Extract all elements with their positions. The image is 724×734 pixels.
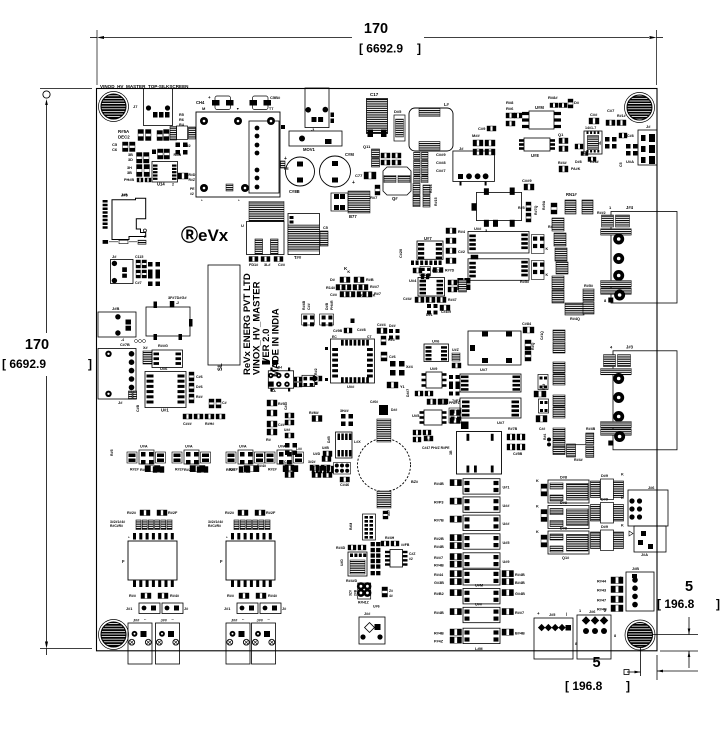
svg-text:D#: D# xyxy=(574,100,580,105)
svg-text:U#1: U#1 xyxy=(503,486,510,490)
svg-text:X#4: X#4 xyxy=(406,365,414,369)
svg-text:R#4H: R#4H xyxy=(385,536,395,540)
svg-text:R#8: R#8 xyxy=(506,100,514,105)
svg-text:J##: J## xyxy=(364,612,371,616)
svg-text:U#4: U#4 xyxy=(409,278,417,283)
svg-text:R#2F: R#2F xyxy=(168,511,178,515)
svg-text:PE: PE xyxy=(190,187,195,191)
svg-text:C77: C77 xyxy=(355,173,363,178)
svg-text:J#4: J#4 xyxy=(626,205,634,210)
resistor R#D right of U14 xyxy=(178,173,182,179)
pin row top T3 xyxy=(231,533,234,540)
svg-text:C5B#: C5B# xyxy=(270,95,281,100)
diode D5 xyxy=(394,115,405,141)
svg-text:C#4#: C#4# xyxy=(284,402,288,410)
capacitor CH4 xyxy=(215,96,231,110)
svg-text:MOV1: MOV1 xyxy=(303,147,316,152)
ic U29 xyxy=(426,372,442,388)
terminal block J35 xyxy=(534,618,573,659)
connector J6A xyxy=(98,349,136,400)
pin row bottom T3 xyxy=(231,581,234,588)
striped block at 188 xyxy=(189,127,196,139)
svg-text:5: 5 xyxy=(685,579,693,595)
svg-text:+: + xyxy=(537,611,540,616)
ic U16 xyxy=(152,350,183,368)
svg-text:K: K xyxy=(360,294,363,298)
svg-text:U#7: U#7 xyxy=(497,420,505,425)
pads cluster 7HF1 xyxy=(439,399,442,404)
svg-text:R#4B: R#4B xyxy=(434,545,444,549)
capacitor C88 xyxy=(589,118,593,124)
svg-text:R#M#: R#M# xyxy=(309,411,319,415)
svg-text:U#7: U#7 xyxy=(480,367,488,372)
svg-text:--: -- xyxy=(268,618,270,622)
svg-text:ⓇeVx: ⓇeVx xyxy=(181,225,229,245)
parts PA2K xyxy=(559,166,562,172)
terminal block J36 xyxy=(577,615,611,659)
svg-text:K: K xyxy=(347,270,350,274)
capacitor C9b xyxy=(487,126,490,131)
svg-text:14#1-7: 14#1-7 xyxy=(585,126,596,130)
parts X7R xyxy=(383,511,388,514)
svg-text:]: ] xyxy=(626,679,630,693)
svg-text:R#4B: R#4B xyxy=(434,564,444,568)
svg-text:R#M: R#M xyxy=(349,523,353,530)
svg-text:3D: 3D xyxy=(128,158,133,162)
svg-text:+: + xyxy=(284,156,287,162)
svg-text:C#: C# xyxy=(222,401,227,405)
heatsink hatched block B77 xyxy=(348,191,370,213)
svg-text:C#M: C#M xyxy=(345,152,354,157)
svg-text:R##: R## xyxy=(129,594,137,598)
svg-text:C#8: C#8 xyxy=(627,134,634,138)
svg-text:R#6: R#6 xyxy=(506,106,514,111)
driver parts row xyxy=(381,153,384,158)
resistor R77 xyxy=(375,185,380,189)
svg-text:C#4#9: C#4#9 xyxy=(441,310,451,314)
ic column left of chain xyxy=(538,375,548,390)
svg-text:C##9: C##9 xyxy=(436,152,446,157)
svg-text:J#: J# xyxy=(118,400,123,405)
svg-text:C#47 PH#Z R#PE: C#47 PH#Z R#PE xyxy=(422,446,450,450)
transformer T2 xyxy=(128,541,177,580)
svg-text:PH#R: PH#R xyxy=(330,300,334,310)
capacitor C29 xyxy=(524,184,528,190)
output transistor pair Q4 xyxy=(601,479,614,500)
svg-text:U#9: U#9 xyxy=(430,366,438,371)
svg-text:R##: R## xyxy=(196,395,203,399)
svg-text:U#B: U#B xyxy=(322,446,329,450)
svg-text:R#C#R#: R#C#R# xyxy=(208,524,221,528)
svg-text:R#5#: R#5# xyxy=(584,284,594,288)
svg-text:R#8#: R#8# xyxy=(548,95,558,100)
pad grid under L3 xyxy=(414,152,421,159)
svg-text:|: | xyxy=(566,611,567,616)
svg-text:J#6: J#6 xyxy=(648,486,654,490)
svg-text:-4: -4 xyxy=(404,563,407,567)
pads 3H11 xyxy=(341,414,346,419)
parts right of U26 xyxy=(448,280,451,285)
parts right of mcu C34 xyxy=(377,328,381,334)
transistor Q4 xyxy=(383,167,411,195)
svg-text:U#A: U#A xyxy=(626,159,634,164)
svg-text:R#47: R#47 xyxy=(597,599,606,603)
svg-text:C#6: C#6 xyxy=(389,355,396,359)
left dimension arrows xyxy=(43,91,50,98)
svg-text:C#4#: C#4# xyxy=(403,297,412,301)
connector J3 xyxy=(453,151,495,182)
via pad xyxy=(351,319,355,324)
relay opto row 9 xyxy=(463,628,500,643)
label area rectangle xyxy=(208,265,240,365)
opto chain resistors upper xyxy=(552,276,564,289)
svg-text:[ 6692.9: [ 6692.9 xyxy=(2,357,46,371)
svg-text:R#4Q: R#4Q xyxy=(570,317,580,321)
mounting hole bottom-right xyxy=(625,620,655,650)
capacitor row under U21 xyxy=(183,414,186,419)
svg-text:Y1: Y1 xyxy=(400,385,405,389)
svg-text:C#1Q: C#1Q xyxy=(540,331,544,340)
capacitor C19B xyxy=(344,328,347,333)
svg-text:R#9A: R#9A xyxy=(542,200,546,210)
svg-text:#2: #2 xyxy=(409,557,413,561)
terminal block J31 xyxy=(156,623,180,664)
parts C7 R11 xyxy=(606,120,609,126)
svg-text:-2: -2 xyxy=(176,301,179,305)
svg-text:PH#B: PH#B xyxy=(124,178,134,182)
resistors R8Q xyxy=(525,340,531,344)
svg-text:R#44: R#44 xyxy=(434,573,444,577)
svg-text:+: + xyxy=(352,180,355,186)
ic U37 outline xyxy=(468,331,521,365)
resistors R1B column xyxy=(423,185,430,196)
svg-text:C#0#: C#0# xyxy=(370,400,378,404)
svg-text:D#8: D#8 xyxy=(575,160,582,164)
connector J1A xyxy=(634,526,666,552)
pin row top T2 xyxy=(133,533,136,540)
svg-text:J#6: J#6 xyxy=(589,610,595,614)
svg-text:R#2#: R#2# xyxy=(175,468,184,472)
svg-text:J##: J## xyxy=(133,619,140,623)
svg-text:D#B: D#B xyxy=(327,436,331,443)
svg-text:J#1: J#1 xyxy=(126,607,132,611)
svg-text:FD1#: FD1# xyxy=(249,263,259,267)
svg-text:U#A: U#A xyxy=(239,445,247,449)
small parts row FD xyxy=(249,257,252,262)
chain right resistors xyxy=(583,289,594,301)
jumper rows top xyxy=(340,277,344,283)
relay output group D2 xyxy=(548,506,589,529)
svg-text:3B: 3B xyxy=(449,450,453,455)
svg-text:Q1: Q1 xyxy=(558,132,564,137)
ic U26 xyxy=(418,278,445,297)
ic X5 QFN xyxy=(584,131,602,154)
bottom parts row tile21 xyxy=(413,268,416,273)
circle pads cluster below L3X xyxy=(334,463,351,475)
svg-text:U#1: U#1 xyxy=(161,408,169,413)
svg-text:X#7: X#7 xyxy=(387,510,391,516)
svg-text:R#D: R#D xyxy=(189,173,196,177)
resistor column right of U21 xyxy=(189,372,194,375)
relay output group D1 xyxy=(548,480,589,503)
wide ic U18 xyxy=(460,398,521,418)
dark labels left of J4H xyxy=(262,361,270,365)
svg-text:R##7: R##7 xyxy=(370,285,379,289)
svg-text:R#4#: R#4# xyxy=(558,161,567,165)
svg-text:2#B: 2#B xyxy=(354,589,358,596)
svg-text:+: + xyxy=(620,606,623,611)
svg-text:3H##: 3H## xyxy=(340,409,349,413)
svg-text:R#C#R#: R#C#R# xyxy=(110,524,123,528)
film capacitor C17 xyxy=(367,99,388,134)
diode D31 xyxy=(427,304,431,308)
resistors R5Q xyxy=(526,202,531,205)
svg-text:C##4: C##4 xyxy=(377,323,386,327)
svg-text:C#: C# xyxy=(284,460,288,464)
top dimension extension line left xyxy=(96,30,98,85)
svg-text:R#B: R#B xyxy=(366,278,374,282)
svg-text:170: 170 xyxy=(364,21,388,37)
svg-text:#2: #2 xyxy=(190,192,194,196)
svg-text:U##: U## xyxy=(284,428,290,432)
ic L3X xyxy=(336,432,353,458)
svg-text:D#8: D#8 xyxy=(560,476,567,480)
mounting hole top-left xyxy=(99,92,129,122)
pad row under U27 xyxy=(411,261,414,266)
svg-text:C#Z: C#Z xyxy=(409,552,415,556)
mounting hole top-right xyxy=(625,93,655,123)
connector M cluster left xyxy=(473,140,477,146)
resistor R7D under U27 xyxy=(433,268,437,273)
capacitor row C115 xyxy=(136,260,141,263)
connector outline right of U13 xyxy=(177,126,188,140)
svg-text:R#4#: R#4# xyxy=(574,458,583,462)
svg-text:R#2#: R#2# xyxy=(127,511,137,515)
svg-text:8: 8 xyxy=(614,634,616,638)
svg-text:R#44: R#44 xyxy=(597,580,607,584)
ic U4A xyxy=(626,144,631,149)
svg-text:--: -- xyxy=(242,618,244,622)
row under U25 xyxy=(413,430,416,435)
top dimension extension line right xyxy=(656,30,658,85)
svg-text:4H: 4H xyxy=(277,366,282,370)
svg-text:U14: U14 xyxy=(157,182,165,187)
svg-text:C###: C### xyxy=(183,422,192,426)
relay opto row 2 xyxy=(463,497,500,512)
svg-text:[ 6692.9: [ 6692.9 xyxy=(359,42,403,56)
crystal Y1 xyxy=(387,382,391,388)
terminal block J33 xyxy=(252,623,276,664)
header J10 xyxy=(363,514,376,540)
svg-text:5: 5 xyxy=(592,655,600,671)
svg-text:R#2#: R#2# xyxy=(140,468,150,472)
opto resistor chain upper xyxy=(552,218,564,231)
inductor L1 hatched xyxy=(249,202,284,222)
svg-text:D#B: D#B xyxy=(325,302,329,310)
svg-text:R#16: R#16 xyxy=(429,184,433,193)
pad near module xyxy=(461,422,469,430)
svg-text:U#8: U#8 xyxy=(531,153,539,158)
svg-text:C#5B: C#5B xyxy=(513,452,523,456)
wide ic LU1 xyxy=(468,232,529,254)
svg-text:C115: C115 xyxy=(135,255,143,259)
diode D13 xyxy=(389,329,393,333)
svg-text:C##: C## xyxy=(307,303,311,310)
svg-text:R#4B: R#4B xyxy=(434,611,444,615)
svg-text:Q1#: Q1# xyxy=(562,556,570,560)
svg-text:U#A: U#A xyxy=(185,445,193,449)
svg-text:R##7: R##7 xyxy=(434,556,443,560)
svg-text:B#4B: B#4B xyxy=(515,632,525,636)
svg-text:J#B: J#B xyxy=(632,567,639,571)
svg-text:U#7: U#7 xyxy=(424,236,432,241)
bottom dimension arrows xyxy=(627,671,641,673)
hatched block X7 xyxy=(377,491,391,508)
svg-text:U: U xyxy=(241,223,244,228)
svg-text:R#: R# xyxy=(548,225,553,229)
connector J5 right edge xyxy=(638,130,657,165)
output transistor pair Q5 xyxy=(601,503,614,524)
pin row bottom T2 xyxy=(133,581,136,588)
svg-text:[ 196.8: [ 196.8 xyxy=(565,679,603,693)
transformer T3 xyxy=(226,541,275,580)
svg-text:R#2#: R#2# xyxy=(184,468,194,472)
svg-text:]: ] xyxy=(716,597,720,611)
svg-text:R6: R6 xyxy=(179,118,184,122)
electrolytic capacitor C2 xyxy=(320,156,351,187)
svg-text:U#5: U#5 xyxy=(503,541,510,545)
svg-text:T##: T## xyxy=(294,255,302,260)
board outline xyxy=(97,89,658,651)
svg-text:D#1: D#1 xyxy=(426,313,433,317)
svg-text:R#4B: R#4B xyxy=(515,573,525,577)
pads right of LU1 xyxy=(532,235,545,254)
svg-text:CH4: CH4 xyxy=(196,100,205,105)
svg-text:3B: 3B xyxy=(128,153,133,157)
svg-text:R##2: R##2 xyxy=(597,211,606,215)
svg-text:C##8: C##8 xyxy=(436,160,446,165)
regulator U3D striped xyxy=(348,552,367,576)
svg-text:M##: M## xyxy=(472,133,481,138)
svg-text:2: 2 xyxy=(172,183,174,187)
svg-text:R#H#: R#H# xyxy=(205,422,214,426)
svg-text:R##G: R##G xyxy=(158,344,168,348)
svg-text:R#P3: R#P3 xyxy=(434,501,444,505)
svg-text:SL: SL xyxy=(218,363,224,371)
connector J16 xyxy=(628,490,668,526)
svg-text:C#9B: C#9B xyxy=(333,329,343,333)
svg-text:R#4#D: R#4#D xyxy=(346,579,358,583)
svg-text:R#43: R#43 xyxy=(597,589,606,593)
connector J3 right outline xyxy=(613,351,677,450)
parts row under J15 xyxy=(103,240,109,244)
parts cluster mid x310 xyxy=(310,465,313,471)
svg-text:U##: U## xyxy=(503,504,511,508)
svg-text:U#6: U#6 xyxy=(160,366,168,371)
svg-text:3#2#: 3#2# xyxy=(308,460,316,464)
diode D2 xyxy=(568,99,573,102)
parts cluster left bottom xyxy=(285,465,288,471)
capacitor C77 xyxy=(364,172,369,179)
connector J2 top xyxy=(305,88,329,128)
svg-text:J#: J# xyxy=(112,254,117,259)
pad column right of U3D xyxy=(371,542,375,546)
power module U1 xyxy=(196,112,280,197)
ic U27 xyxy=(417,241,443,259)
buzzer BZ1 xyxy=(358,439,411,492)
svg-text:R##: R## xyxy=(227,594,235,598)
shield module X2 outline xyxy=(146,307,190,336)
svg-text:R#7B: R#7B xyxy=(508,427,518,431)
svg-text:C##8: C##8 xyxy=(357,328,366,332)
svg-text:U#9: U#9 xyxy=(503,560,510,564)
resistors near X5 xyxy=(575,144,578,149)
svg-text:R#7D: R#7D xyxy=(432,269,442,273)
pads right of U29 xyxy=(449,375,453,379)
svg-text:K: K xyxy=(621,473,624,477)
svg-text:G#4B: G#4B xyxy=(515,592,525,596)
svg-text:U#M: U#M xyxy=(475,584,483,588)
resistor R9A xyxy=(551,203,557,207)
wide ic U17 xyxy=(460,374,521,392)
bottom small dimension lines xyxy=(640,646,642,676)
transformer T1 xyxy=(288,214,320,255)
relay opto row 3 xyxy=(463,515,500,530)
parts R88 xyxy=(550,103,553,108)
parts R8A xyxy=(294,377,297,382)
left dimension extension line top xyxy=(40,88,92,90)
svg-text:]: ] xyxy=(88,357,92,371)
svg-text:C#8B: C#8B xyxy=(289,189,300,194)
svg-text:K: K xyxy=(536,530,539,534)
connector J4 pads xyxy=(602,215,614,227)
svg-text:K: K xyxy=(546,273,549,277)
svg-text:3L#: 3L# xyxy=(264,263,271,267)
svg-text:R#47: R#47 xyxy=(448,298,457,302)
svg-text:3H: 3H xyxy=(127,166,132,170)
capacitor C84 xyxy=(523,327,527,333)
pads cluster J4H xyxy=(268,371,293,388)
svg-text:R#7Q: R#7Q xyxy=(534,205,538,215)
svg-text:3B: 3B xyxy=(127,171,132,175)
svg-text:J#: J# xyxy=(646,124,651,129)
svg-text:R#B: R#B xyxy=(174,153,182,157)
svg-text:R#Z: R#Z xyxy=(189,178,195,182)
svg-text:J##: J## xyxy=(257,619,264,623)
svg-text:J#1: J#1 xyxy=(224,607,230,611)
svg-text:R#5: R#5 xyxy=(110,449,114,456)
connector J7 xyxy=(144,89,173,126)
ic part right of J4H xyxy=(302,375,315,386)
ic U2 large xyxy=(477,192,522,220)
svg-text:P#4Z: P#4Z xyxy=(434,640,444,644)
svg-text:D##: D## xyxy=(389,324,396,328)
ic U21 xyxy=(145,372,186,408)
electrolytic capacitor C1 xyxy=(286,157,315,186)
svg-text:K: K xyxy=(373,294,376,298)
svg-text:R#4B: R#4B xyxy=(434,482,444,486)
svg-text:R#4B: R#4B xyxy=(302,300,306,310)
svg-text:R14#: R14# xyxy=(326,286,336,290)
svg-text:VINOD_HV_MASTER: VINOD_HV_MASTER xyxy=(100,84,146,89)
svg-text:U#5: U#5 xyxy=(412,413,420,418)
ic U25 xyxy=(424,410,442,425)
svg-text:L#M: L#M xyxy=(475,647,483,651)
svg-text:D#9: D#9 xyxy=(601,525,608,529)
svg-text:R##7: R##7 xyxy=(515,611,524,615)
parts right of U25 xyxy=(450,410,454,416)
module U40 block xyxy=(457,432,502,475)
